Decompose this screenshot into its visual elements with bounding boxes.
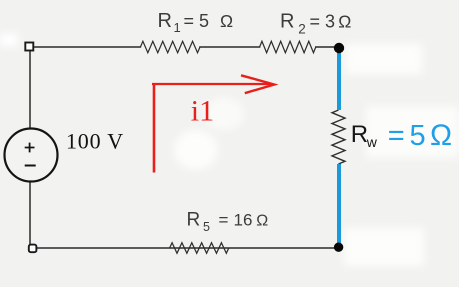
svg-text:= 5: = 5 — [184, 11, 210, 31]
svg-text:5: 5 — [203, 220, 210, 234]
svg-text:w: w — [366, 134, 378, 150]
svg-text:5: 5 — [410, 120, 426, 152]
svg-text:Ω: Ω — [338, 12, 351, 32]
svg-text:= 3: = 3 — [310, 12, 336, 32]
svg-text:i1: i1 — [191, 95, 214, 128]
svg-text:1: 1 — [174, 20, 181, 35]
svg-text:R: R — [351, 121, 368, 148]
svg-text:Ω: Ω — [430, 119, 452, 152]
svg-text:=: = — [219, 211, 229, 230]
svg-text:2: 2 — [298, 21, 306, 36]
svg-text:Ω: Ω — [220, 11, 233, 31]
svg-text:R: R — [280, 11, 294, 33]
svg-text:16: 16 — [234, 211, 253, 230]
svg-text:100 V: 100 V — [66, 129, 124, 154]
svg-text:R: R — [158, 10, 172, 32]
svg-text:=: = — [388, 120, 405, 152]
svg-text:Ω: Ω — [256, 213, 268, 230]
svg-text:R: R — [187, 210, 201, 231]
